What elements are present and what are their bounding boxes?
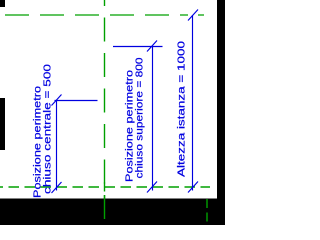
reference plane: horizontal green dashed line (bottom, y=187) xyxy=(0,186,210,188)
svg-text:chiuso superiore = 800: chiuso superiore = 800 xyxy=(134,57,146,178)
dim U1 top tick xyxy=(188,10,198,21)
dimension U1: Altezza istanza = 1000 : vertical dim line x=192.5 xyxy=(192,15,194,191)
dim U2 top tick xyxy=(147,41,157,52)
tick gap on green line at dimension line crossing xyxy=(188,11,198,20)
black panel: right strip xyxy=(217,0,225,225)
dim U2 bottom tick xyxy=(147,182,157,193)
canvas background xyxy=(0,0,225,225)
dimension U2: chiuso superiore = 800 : vertical dim line x=152 xyxy=(152,46,154,191)
reference plane: horizontal green dashed line (top, y=14.5) xyxy=(5,14,204,16)
dim U3 bottom tick xyxy=(52,182,62,193)
dimension U3: chiuso centrale = 500 : vertical dim line x=56.5 xyxy=(56,100,58,191)
svg-text:Altezza istanza = 1000: Altezza istanza = 1000 xyxy=(176,41,188,177)
svg-text:chiuso centrale = 500: chiuso centrale = 500 xyxy=(42,64,54,194)
green dashed vertical ref plane inside bottom band (x=207) xyxy=(206,199,208,225)
dim U3 witness line y=100 xyxy=(55,100,98,102)
black panel: left edge strip xyxy=(0,98,5,150)
black panel: bottom band xyxy=(0,199,225,226)
green vertical ref plane dashes over bottom band (x=104.5) xyxy=(104,195,106,219)
dim U3 top tick xyxy=(52,95,62,106)
reference plane: vertical green dashed line (x=104.5) xyxy=(104,0,106,219)
black panel: top-left corner square xyxy=(0,0,5,7)
dim U2 witness line y=46 xyxy=(113,46,163,48)
dim U1 bottom tick xyxy=(188,182,198,193)
green cross tick at intersection of bottom ref line and vertical ref plane xyxy=(104,183,106,192)
